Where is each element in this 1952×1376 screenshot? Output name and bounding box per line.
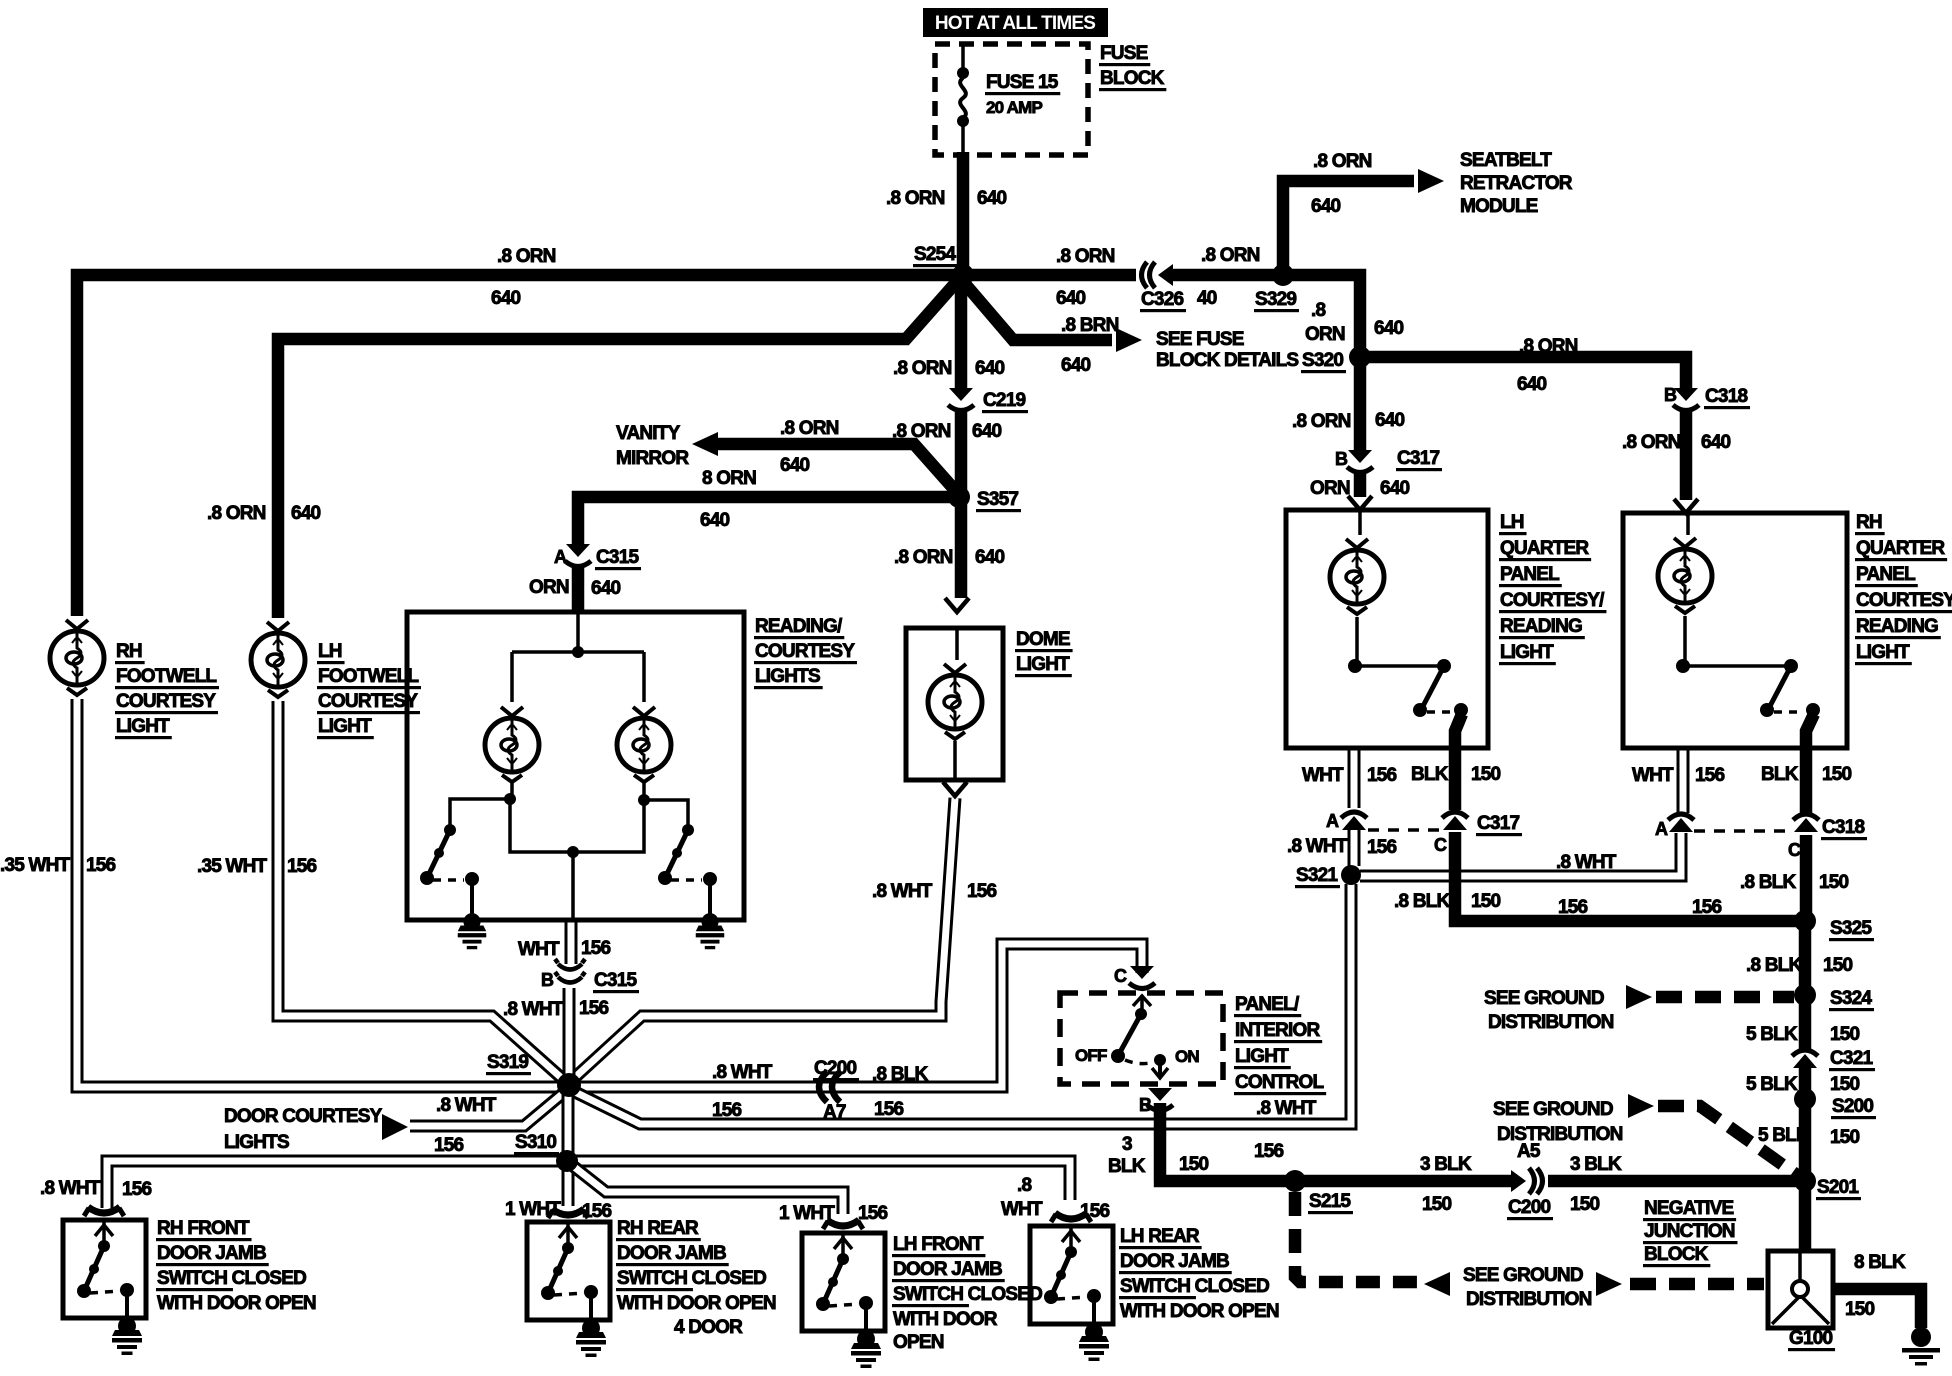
connector C200 A7 [819, 1072, 827, 1102]
svg-text:B: B [541, 970, 554, 990]
svg-text:SEE GROUND: SEE GROUND [1484, 988, 1604, 1009]
svg-text:RETRACTOR: RETRACTOR [1460, 173, 1573, 194]
svg-text:150: 150 [1471, 891, 1501, 912]
reading light left switch [510, 783, 514, 799]
node S200 [1794, 1088, 1816, 1110]
svg-text:NEGATIVE: NEGATIVE [1644, 1198, 1733, 1219]
door jamb switch RH front box [63, 1220, 146, 1318]
svg-text:C318: C318 [1705, 386, 1747, 407]
svg-text:156: 156 [579, 998, 609, 1019]
svg-text:SWITCH CLOSED: SWITCH CLOSED [617, 1268, 766, 1289]
svg-text:LIGHT: LIGHT [1500, 642, 1554, 663]
svg-text:156: 156 [122, 1179, 152, 1200]
connector C219 [948, 388, 974, 411]
svg-text:WHT: WHT [1632, 765, 1674, 786]
dashed link to S324 [1656, 991, 1794, 1004]
svg-text:SEATBELT: SEATBELT [1460, 150, 1552, 171]
wire LH quarter light WHT to C317 A [1348, 748, 1361, 808]
ground at reading light right switch [696, 913, 725, 949]
svg-text:BLOCK: BLOCK [1644, 1244, 1709, 1265]
svg-text:SEE GROUND: SEE GROUND [1463, 1265, 1583, 1286]
svg-text:150: 150 [1830, 1024, 1860, 1045]
svg-text:S320: S320 [1302, 350, 1343, 371]
door jamb switch LH rear box [1030, 1226, 1113, 1324]
connector C318 C [1793, 814, 1819, 832]
svg-text:S201: S201 [1817, 1177, 1859, 1198]
svg-text:.8 BLK: .8 BLK [1740, 872, 1796, 893]
svg-text:C315: C315 [596, 547, 639, 568]
svg-text:C200: C200 [814, 1058, 856, 1079]
RH quarter light bulb [1686, 513, 1690, 535]
svg-text:.8 ORN: .8 ORN [886, 188, 945, 209]
svg-text:COURTESY/: COURTESY/ [1500, 590, 1605, 611]
connector LH front input [823, 1220, 863, 1229]
node S319 [557, 1073, 581, 1097]
svg-text:C: C [1434, 835, 1447, 855]
svg-text:.8 ORN: .8 ORN [497, 246, 556, 267]
wire S329 to seatbelt retractor module (.8 ORN 640) [1283, 181, 1414, 275]
wire S254 to fuse block details (.8 BRN 640) [960, 278, 1112, 340]
svg-text:156: 156 [967, 881, 997, 902]
svg-text:640: 640 [972, 421, 1002, 442]
svg-text:COURTESY/: COURTESY/ [1856, 590, 1952, 611]
svg-text:S215: S215 [1309, 1191, 1351, 1212]
svg-text:640: 640 [1375, 410, 1405, 431]
svg-text:150: 150 [1819, 872, 1849, 893]
svg-text:LIGHT: LIGHT [1856, 642, 1910, 663]
svg-text:S357: S357 [977, 489, 1018, 510]
wire S319 to S310 [562, 1092, 575, 1155]
svg-text:S200: S200 [1832, 1096, 1873, 1117]
svg-text:BLK: BLK [1761, 764, 1799, 785]
wire RH footwell return WHT 156 [77, 699, 560, 1087]
connector C315 A [565, 544, 591, 567]
connector LH rear input [1051, 1213, 1091, 1222]
svg-text:156: 156 [858, 1203, 888, 1224]
wire C317 A to S321 [1348, 830, 1361, 866]
ground at RH rear [576, 1319, 606, 1357]
svg-text:.8 BLK: .8 BLK [1746, 955, 1802, 976]
svg-text:READING: READING [1856, 616, 1938, 637]
svg-text:PANEL: PANEL [1856, 564, 1916, 585]
connector panel light control pin B [1147, 1088, 1173, 1111]
svg-text:LIGHTS: LIGHTS [755, 666, 820, 687]
svg-text:.8: .8 [1311, 300, 1325, 321]
svg-text:HOT AT ALL TIMES: HOT AT ALL TIMES [935, 13, 1095, 34]
wire C317 C to S325 (.8 BLK 150) [1455, 832, 1805, 921]
wire ground bus S325 to C321 (5 BLK 150) [1799, 921, 1812, 1051]
connector C318 A [1668, 814, 1694, 832]
svg-text:1 WHT: 1 WHT [779, 1203, 835, 1224]
svg-text:LIGHT: LIGHT [1016, 654, 1070, 675]
svg-text:DISTRIBUTION: DISTRIBUTION [1497, 1124, 1623, 1145]
svg-text:QUARTER: QUARTER [1856, 538, 1945, 559]
connector panel light control pin C [1129, 966, 1155, 989]
svg-text:INTERIOR: INTERIOR [1235, 1020, 1320, 1041]
svg-text:156: 156 [434, 1135, 464, 1156]
fuse FUSE 15 20 AMP [961, 44, 965, 70]
svg-text:150: 150 [1830, 1074, 1860, 1095]
svg-text:.8 ORN: .8 ORN [1313, 151, 1372, 172]
wire C317 B to LH quarter light (ORN 640) [1354, 472, 1367, 497]
reading light bulb left [485, 707, 539, 782]
svg-text:150: 150 [1830, 1127, 1860, 1148]
panel/interior light control dashed box [1060, 993, 1223, 1084]
svg-text:.8 WHT: .8 WHT [1556, 852, 1617, 873]
svg-text:BLK: BLK [1411, 764, 1449, 785]
svg-text:A: A [1326, 811, 1339, 831]
arrow to fuse block details [1116, 328, 1142, 352]
svg-text:WHT: WHT [518, 939, 560, 960]
wire S254 left to RH footwell light [77, 275, 963, 616]
svg-text:S310: S310 [515, 1132, 556, 1153]
connector C317 C [1442, 812, 1468, 830]
svg-text:.8 WHT: .8 WHT [712, 1062, 773, 1083]
svg-text:DISTRIBUTION: DISTRIBUTION [1466, 1289, 1592, 1310]
wire fuse output to S254 (.8 ORN 640) [957, 152, 970, 275]
svg-text:OPEN: OPEN [893, 1332, 944, 1353]
svg-text:640: 640 [1311, 196, 1341, 217]
wire LH quarter light BLK to C317 C (150) [1455, 714, 1462, 810]
svg-text:.8 BRN: .8 BRN [1061, 315, 1119, 336]
svg-text:WHT: WHT [1001, 1199, 1043, 1220]
node S357 [948, 486, 970, 508]
svg-text:5 BLK: 5 BLK [1746, 1024, 1798, 1045]
svg-text:BLK: BLK [1108, 1156, 1146, 1177]
svg-text:150: 150 [1471, 764, 1501, 785]
svg-text:COURTESY: COURTESY [318, 691, 418, 712]
svg-text:MODULE: MODULE [1460, 196, 1538, 217]
svg-text:LH REAR: LH REAR [1120, 1226, 1200, 1247]
svg-text:RH FRONT: RH FRONT [157, 1218, 250, 1239]
wire reading lights return to S319 [565, 920, 578, 964]
svg-text:1 WHT: 1 WHT [505, 1199, 561, 1220]
reading lights internal wiring [576, 612, 580, 650]
dashed link S215 to ground distribution [1295, 1192, 1418, 1282]
connector C321 [1792, 1050, 1818, 1068]
svg-text:S325: S325 [1830, 918, 1872, 939]
negative junction block [1768, 1251, 1833, 1328]
wire S319 to C200 A7 to panel light control pin C (.8 WHT 156) [578, 944, 1142, 1087]
svg-text:.8 ORN: .8 ORN [1056, 246, 1115, 267]
svg-text:.8 ORN: .8 ORN [893, 358, 952, 379]
svg-text:4 DOOR: 4 DOOR [674, 1317, 743, 1338]
svg-text:3 BLK: 3 BLK [1420, 1154, 1472, 1175]
node S215 [1284, 1170, 1306, 1192]
ground at RH front [112, 1317, 142, 1355]
connector C326 [1142, 262, 1174, 288]
dashed link to S201 [1658, 1106, 1797, 1175]
wire S320 to C318 B (.8 ORN 640) [1360, 357, 1686, 388]
svg-text:.35 WHT: .35 WHT [197, 856, 268, 877]
svg-text:RH: RH [116, 641, 142, 662]
svg-text:.8 WHT: .8 WHT [503, 999, 564, 1020]
svg-text:C219: C219 [983, 390, 1025, 411]
dome light box [906, 628, 1003, 780]
svg-text:.8 ORN: .8 ORN [1519, 336, 1578, 357]
svg-text:C200: C200 [1508, 1197, 1550, 1218]
svg-text:640: 640 [491, 288, 521, 309]
svg-text:640: 640 [975, 547, 1005, 568]
svg-text:WITH DOOR: WITH DOOR [893, 1309, 998, 1330]
wire S320 down to C317 B (.8 ORN 640) [1354, 357, 1367, 450]
LH quarter light switch [1348, 659, 1362, 673]
LH quarter panel courtesy/reading light box [1286, 510, 1488, 748]
switch RH front internals [102, 1222, 106, 1244]
svg-text:CONTROL: CONTROL [1235, 1072, 1325, 1093]
wire S321 to C318 A (.8 WHT 156) [1360, 833, 1681, 876]
svg-text:B: B [1139, 1095, 1152, 1115]
svg-text:.8 WHT: .8 WHT [1287, 836, 1348, 857]
connector RH rear input [548, 1209, 588, 1218]
svg-text:.8 WHT: .8 WHT [40, 1178, 101, 1199]
connector C315 B [555, 959, 585, 983]
svg-text:LIGHT: LIGHT [1235, 1046, 1289, 1067]
svg-text:5 BLK: 5 BLK [1746, 1074, 1798, 1095]
wire C321 to S201 (5 BLK 150) [1799, 1068, 1812, 1251]
svg-text:150: 150 [1570, 1194, 1600, 1215]
wire C200 A5 to S201 (3 BLK 150) [1548, 1175, 1805, 1188]
wire dome light return WHT 156 [571, 798, 955, 1081]
svg-text:S324: S324 [1830, 988, 1872, 1009]
svg-text:C318: C318 [1822, 817, 1864, 838]
wire panel light control B to S215 (3 BLK 150) [1154, 1103, 1512, 1181]
svg-text:LIGHT: LIGHT [116, 716, 170, 737]
wire S254 right to C326 (.8 ORN 640) [963, 269, 1136, 282]
svg-text:C326: C326 [1141, 289, 1183, 310]
svg-text:640: 640 [700, 510, 730, 531]
svg-text:640: 640 [977, 188, 1007, 209]
node S254 [952, 264, 974, 286]
svg-text:156: 156 [1367, 765, 1397, 786]
svg-text:640: 640 [1056, 288, 1086, 309]
wire C315 A to reading/courtesy lights (ORN 640) [572, 566, 585, 612]
svg-text:DOOR JAMB: DOOR JAMB [893, 1259, 1002, 1280]
svg-text:.8 ORN: .8 ORN [207, 503, 266, 524]
svg-text:3 BLK: 3 BLK [1570, 1154, 1622, 1175]
svg-text:DISTRIBUTION: DISTRIBUTION [1488, 1012, 1614, 1033]
svg-text:C: C [1114, 966, 1127, 986]
RH quarter panel courtesy/reading light box [1623, 513, 1847, 748]
svg-text:B: B [1664, 385, 1677, 405]
svg-text:640: 640 [591, 578, 621, 599]
svg-text:.8 ORN: .8 ORN [1622, 432, 1681, 453]
arrow see ground distribution (lower left) [1424, 1272, 1450, 1296]
svg-text:150: 150 [1845, 1299, 1875, 1320]
ground at reading light left switch [458, 913, 487, 949]
connector C317 A-C link [1368, 828, 1442, 832]
node S321 [1341, 865, 1361, 885]
svg-text:S329: S329 [1255, 289, 1296, 310]
svg-text:SEE FUSE: SEE FUSE [1156, 329, 1244, 350]
arrow see ground distribution (lower right) [1596, 1272, 1622, 1296]
arrow see ground distribution (S201) [1628, 1094, 1654, 1118]
svg-text:DOOR JAMB: DOOR JAMB [1120, 1251, 1229, 1272]
wire S357 to vanity mirror (.8 ORN 640) [716, 444, 961, 497]
svg-text:8 BLK: 8 BLK [1854, 1252, 1906, 1273]
dashed link to negative junction block [1630, 1278, 1764, 1291]
dome light bulb [955, 628, 959, 660]
svg-text:FOOTWELL: FOOTWELL [116, 666, 217, 687]
svg-text:156: 156 [874, 1099, 904, 1120]
svg-text:156: 156 [1695, 765, 1725, 786]
svg-text:READING/: READING/ [755, 616, 843, 637]
svg-text:READING: READING [1500, 616, 1582, 637]
wire S329 to S320 [1283, 275, 1360, 357]
wire C326 to S329 (.8 ORN 40) [1172, 269, 1283, 282]
svg-text:BLOCK: BLOCK [1100, 68, 1165, 89]
svg-text:FUSE: FUSE [1100, 43, 1148, 64]
svg-text:A5: A5 [1517, 1141, 1541, 1162]
svg-text:A: A [554, 547, 567, 567]
svg-text:WITH DOOR OPEN: WITH DOOR OPEN [157, 1293, 316, 1314]
svg-text:150: 150 [1422, 1194, 1452, 1215]
svg-text:BLOCK DETAILS: BLOCK DETAILS [1156, 350, 1298, 371]
wire door courtesy lights feed [410, 1090, 567, 1126]
svg-text:PANEL/: PANEL/ [1235, 994, 1300, 1015]
fuse block dashed box [935, 44, 1088, 155]
svg-text:ON: ON [1175, 1047, 1199, 1066]
svg-text:640: 640 [291, 503, 321, 524]
svg-text:S319: S319 [487, 1052, 528, 1073]
svg-text:SWITCH CLOSED: SWITCH CLOSED [157, 1268, 306, 1289]
svg-text:LH: LH [1500, 512, 1524, 533]
reading light right switch [642, 783, 646, 800]
node S329 [1272, 264, 1294, 286]
svg-text:MIRROR: MIRROR [616, 448, 689, 469]
svg-text:156: 156 [581, 938, 611, 959]
svg-text:C: C [1788, 840, 1801, 860]
svg-text:JUNCTION: JUNCTION [1644, 1221, 1735, 1242]
svg-text:3: 3 [1122, 1134, 1132, 1155]
arrow to seatbelt retractor module [1418, 169, 1444, 193]
svg-text:PANEL: PANEL [1500, 564, 1560, 585]
door jamb switch LH front box [802, 1233, 885, 1331]
svg-text:.8 ORN: .8 ORN [1292, 411, 1351, 432]
reading lights output node [510, 799, 644, 852]
wire LH footwell return WHT 156 [278, 701, 566, 1082]
svg-text:.8 ORN: .8 ORN [1201, 245, 1260, 266]
svg-text:640: 640 [780, 455, 810, 476]
svg-text:.8 WHT: .8 WHT [436, 1095, 497, 1116]
wire S310 to RH rear jamb switch (1 WHT 156) [562, 1167, 575, 1206]
switch RH rear internals [566, 1224, 570, 1246]
ground at LH front [851, 1330, 881, 1368]
RH footwell courtesy light [50, 620, 104, 695]
svg-text:LH: LH [318, 641, 342, 662]
svg-text:COURTESY: COURTESY [755, 641, 855, 662]
svg-text:156: 156 [86, 855, 116, 876]
svg-text:156: 156 [582, 1201, 612, 1222]
svg-text:150: 150 [1179, 1154, 1209, 1175]
svg-text:WHT: WHT [1302, 765, 1344, 786]
svg-text:156: 156 [1080, 1201, 1110, 1222]
svg-text:.8 ORN: .8 ORN [894, 547, 953, 568]
svg-text:VANITY: VANITY [616, 423, 681, 444]
arrow to vanity mirror [692, 432, 718, 456]
svg-text:.35 WHT: .35 WHT [0, 855, 71, 876]
wire S357 to C315 A (8 ORN 640) [578, 497, 961, 544]
ground G100 [1911, 1327, 1931, 1347]
wire RH quarter light WHT to C318 A [1677, 748, 1690, 813]
node S325 [1794, 910, 1816, 932]
svg-text:156: 156 [287, 856, 317, 877]
label HOT AT ALL TIMES [923, 8, 1108, 37]
panel light control switch [1140, 995, 1144, 1012]
connector C317 A [1341, 812, 1367, 830]
svg-text:LIGHT: LIGHT [318, 716, 372, 737]
LH footwell courtesy light [251, 622, 305, 697]
svg-text:OFF: OFF [1075, 1046, 1107, 1065]
wire S357 to dome light (.8 ORN 640) [955, 497, 968, 598]
svg-text:C321: C321 [1830, 1048, 1873, 1069]
svg-text:20 AMP: 20 AMP [986, 98, 1042, 117]
svg-text:156: 156 [1254, 1141, 1284, 1162]
connector C317 B [1347, 450, 1373, 473]
svg-text:ORN: ORN [529, 577, 569, 598]
svg-text:SWITCH CLOSED: SWITCH CLOSED [893, 1284, 1042, 1305]
wire S310 bus to door jamb switches [107, 1161, 1070, 1208]
svg-text:A7: A7 [823, 1102, 846, 1123]
connector C318 A-C link [1694, 829, 1793, 833]
switch LH front internals [841, 1235, 845, 1257]
svg-text:DOOR JAMB: DOOR JAMB [617, 1243, 726, 1264]
node S320 [1349, 346, 1371, 368]
svg-text:.8 ORN: .8 ORN [780, 418, 839, 439]
connector RH front input [84, 1207, 124, 1216]
node S201 [1794, 1170, 1816, 1192]
connector C200 A5 [1511, 1168, 1543, 1194]
wire S254 to LH footwell light [278, 278, 960, 618]
wire S310 to LH front jamb switch (1 WHT 156) [573, 1166, 843, 1214]
svg-text:SEE GROUND: SEE GROUND [1493, 1099, 1613, 1120]
svg-text:ORN: ORN [1305, 324, 1345, 345]
svg-text:DOOR COURTESY: DOOR COURTESY [224, 1106, 383, 1127]
svg-text:C317: C317 [1477, 813, 1519, 834]
svg-text:40: 40 [1197, 288, 1217, 309]
svg-text:640: 640 [1517, 374, 1547, 395]
svg-text:B: B [1335, 449, 1348, 469]
svg-text:640: 640 [1701, 432, 1731, 453]
svg-text:.8 BLK: .8 BLK [872, 1064, 928, 1085]
svg-text:WITH DOOR OPEN: WITH DOOR OPEN [617, 1293, 776, 1314]
wire S319 to S321 (.8 WHT 156) [575, 884, 1351, 1124]
svg-text:640: 640 [1380, 478, 1410, 499]
wire C318 B to RH quarter light (.8 ORN 640) [1680, 410, 1693, 500]
svg-text:640: 640 [1061, 355, 1091, 376]
wire C318 C to S325 (.8 BLK 150) [1800, 835, 1813, 921]
svg-text:640: 640 [1374, 318, 1404, 339]
reading light bulb right [617, 707, 671, 782]
svg-text:LIGHTS: LIGHTS [224, 1132, 289, 1153]
svg-text:156: 156 [1558, 897, 1588, 918]
svg-text:150: 150 [1823, 955, 1853, 976]
svg-text:156: 156 [712, 1100, 742, 1121]
svg-text:150: 150 [1822, 764, 1852, 785]
connector C318 B [1673, 388, 1699, 411]
svg-text:DOME: DOME [1016, 629, 1070, 650]
LH quarter light bulb [1358, 510, 1362, 535]
svg-text:.8 WHT: .8 WHT [1256, 1098, 1317, 1119]
svg-text:QUARTER: QUARTER [1500, 538, 1589, 559]
svg-text:G100: G100 [1789, 1328, 1833, 1349]
svg-text:RH REAR: RH REAR [617, 1218, 699, 1239]
door jamb switch RH rear box [527, 1222, 610, 1320]
svg-text:8 ORN: 8 ORN [702, 468, 756, 489]
svg-text:C317: C317 [1397, 448, 1439, 469]
svg-text:SWITCH CLOSED: SWITCH CLOSED [1120, 1276, 1269, 1297]
svg-text:FOOTWELL: FOOTWELL [318, 666, 419, 687]
